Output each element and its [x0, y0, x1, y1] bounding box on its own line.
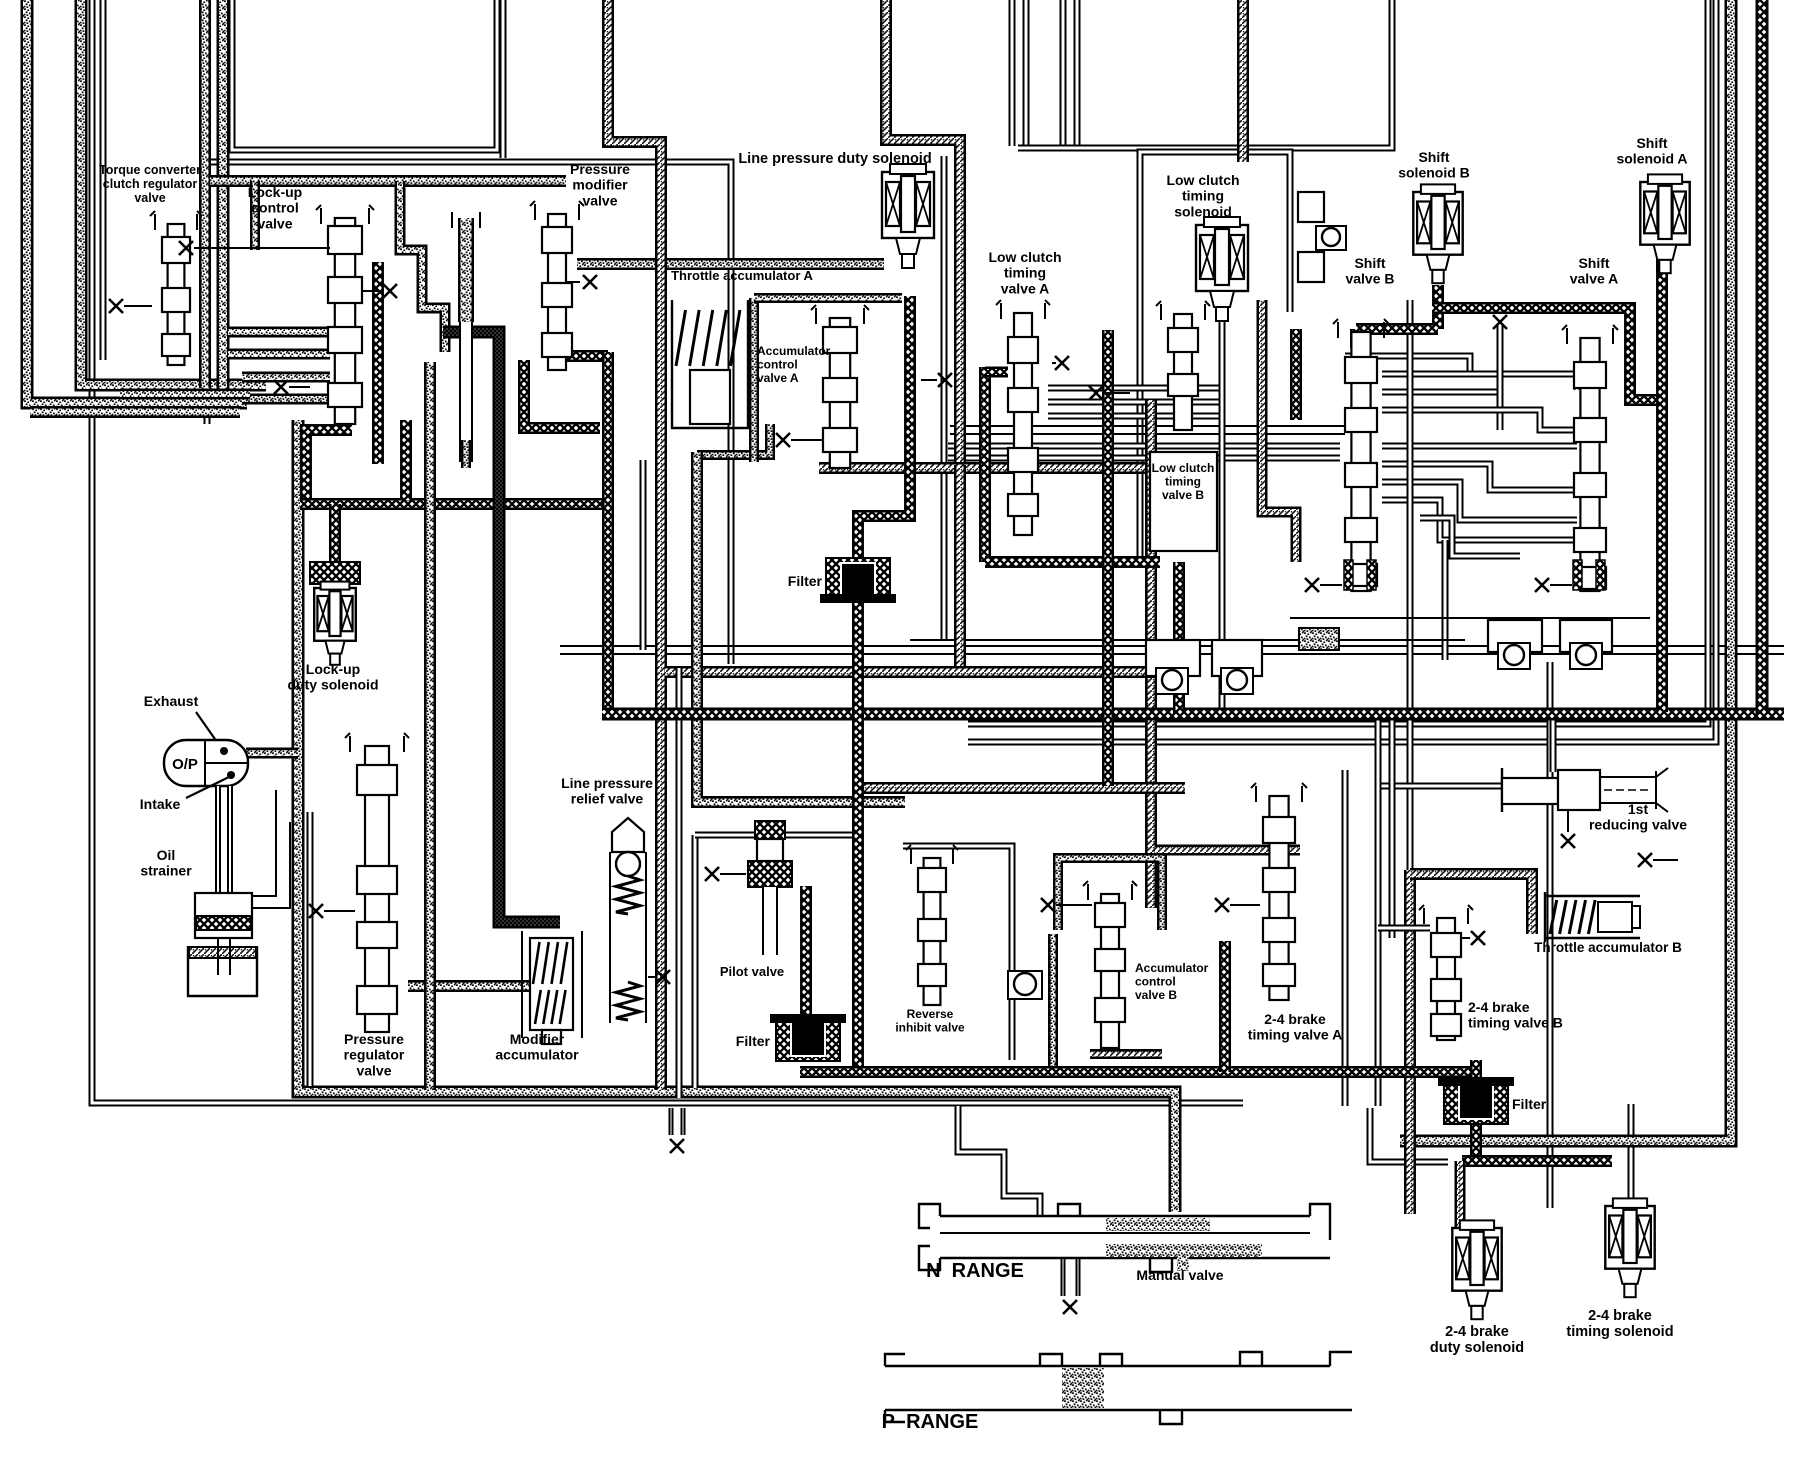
x manual valve drain [1063, 1300, 1077, 1314]
wire link to 2-4 brake timing valve B [1378, 925, 1430, 932]
wire intake pointer [186, 777, 229, 798]
wire strainer link a [252, 790, 276, 896]
wire manual valve drain b [1076, 1259, 1081, 1296]
wire low-clutch link b [1048, 399, 1222, 406]
wire horizontal low-clutch a [948, 443, 1340, 450]
wire shift maze 2 [1382, 374, 1577, 390]
pipe stipple left inner loop [81, 0, 266, 385]
pipe stipple lock-up link a [228, 327, 330, 338]
x 2-4 brake timing A port [1215, 898, 1229, 912]
valve pressure regulator [345, 733, 409, 1032]
wire vertical left of low clutch group [941, 156, 948, 640]
filter right (2-4 brake) [1438, 1077, 1514, 1124]
wire 2-4A port [1230, 904, 1260, 906]
wire white box top-left [232, 0, 497, 150]
pipe crosshatch below valve B box [985, 556, 1160, 568]
wire shift maze 8 [1382, 500, 1577, 540]
pipe stipple column tip [461, 440, 471, 468]
valve 1st reducing [1502, 768, 1668, 812]
pipe crosshatch 2-4 brake timing valve A drop [1219, 941, 1231, 1072]
wire vertical top-center c [1060, 0, 1067, 146]
wire shift maze 4 [1382, 410, 1577, 430]
pipe stipple pump outlet [246, 748, 298, 759]
wire stub below X [1497, 325, 1504, 405]
solenoid shift B [1413, 184, 1462, 283]
svg-text:Filter: Filter [788, 573, 823, 589]
wire shift maze 7 [1382, 482, 1577, 520]
solenoid shift A [1640, 174, 1689, 273]
wire long horizontal lower [560, 653, 1784, 655]
pipe crosshatch modifier valve stub [566, 350, 608, 362]
x 1st reducing port [1561, 834, 1575, 848]
pump O/P [164, 740, 248, 786]
stipple inside manual valve a [1106, 1218, 1210, 1231]
pipe stipple staircase to modifier [400, 181, 445, 352]
wire bracket a [451, 212, 453, 228]
spring throttle accumulator B [1550, 900, 1595, 934]
pipe stipple left bundle low [30, 406, 240, 418]
x low clutch timing A port a [1055, 356, 1069, 370]
wire pilot port [720, 873, 746, 875]
stipple block near shift maze [1299, 628, 1339, 650]
spring relief upper [616, 876, 640, 914]
wire left drain stub b [681, 1108, 686, 1135]
box check ball c [1488, 620, 1542, 652]
pipe stipple left bundle mid [120, 389, 250, 400]
spring modifier accumulator lower [535, 990, 566, 1024]
stipple inside manual valve b [1106, 1244, 1262, 1257]
box check ball d [1560, 620, 1612, 652]
valve low clutch timing B [1156, 301, 1210, 430]
wire vertical below maze [1442, 540, 1449, 660]
wire to 2-4 brake timing solenoid [1628, 1104, 1635, 1208]
svg-text:Filter: Filter [736, 1033, 771, 1049]
svg-text:Line pressure duty solenoid: Line pressure duty solenoid [738, 151, 931, 167]
x port right of 2-4 timing valve A [1638, 853, 1652, 867]
x lock-up right port [383, 284, 397, 298]
pipe stipple to modifier accumulator [408, 980, 560, 992]
svg-text:Pilot valve: Pilot valve [720, 964, 784, 979]
valve pressure modifier [530, 201, 584, 370]
crosshatch tabs shift valve A [1573, 560, 1582, 590]
pipe crosshatch horizontal to main drop [300, 498, 608, 510]
wire reverse inhibit valve box [903, 846, 1012, 1060]
wire stub to 1st reducing valve [1550, 714, 1557, 772]
stipple inside manual valve P [1062, 1368, 1104, 1408]
pipe crosshatch branch to shift valve B [1356, 323, 1438, 335]
wire port b [1104, 392, 1130, 394]
cap modifier accumulator [542, 1030, 561, 1044]
wire vertical left of pilot box [676, 668, 683, 1098]
check ball near solenoid [1316, 226, 1346, 250]
wire shift maze 9 [1420, 518, 1520, 556]
wire shift maze 6 [1382, 464, 1577, 490]
x lock-up left port [179, 241, 193, 255]
wire TCC port [124, 305, 152, 307]
pipe stipple ACV-A to drop [697, 424, 770, 455]
spring relief lower [616, 982, 640, 1020]
box check ball b [1212, 640, 1262, 676]
wire low-clutch thin d [950, 425, 1345, 427]
solenoid lock-up duty [314, 582, 356, 665]
wire horizontal low-clutch b [948, 455, 1340, 462]
pipe stipple wall around accumulator control valve B [1058, 858, 1162, 930]
wire pump to strainer a [215, 786, 221, 895]
wire acc A port [791, 439, 822, 441]
wire pump to strainer b [227, 786, 233, 895]
wire x stub [1653, 859, 1678, 861]
box low clutch timing valve B [1150, 452, 1217, 551]
pipe crosshatch drop below valve B run [1173, 562, 1185, 714]
pipe stipple lock-up link d [242, 394, 330, 405]
wire vertical below crosshatch junction [640, 460, 647, 650]
pipe stipple accumulator control A wall left [749, 298, 759, 462]
box check ball a [1146, 640, 1200, 676]
spring throttle accumulator A coil [676, 310, 740, 366]
pipe crosshatch into right filter [1470, 1060, 1482, 1083]
pipe stipple to lock-up top [250, 181, 260, 250]
wire lock-up port [362, 290, 382, 292]
wire pilot box top [695, 832, 862, 839]
pipe stipple below valve B left [1048, 934, 1058, 1068]
pilot valve upper [757, 839, 783, 861]
valve line pressure relief [610, 818, 646, 1023]
wire strainer link b [252, 822, 290, 908]
pipe hatch below accumulator control valve B [1090, 1049, 1162, 1059]
filter upper (throttle circuit) [820, 558, 896, 603]
wire box around low clutch timing solenoid [1140, 152, 1290, 560]
pipe hatch horizontal mid lower [862, 782, 1185, 794]
pipe crosshatch main vertical drop [602, 352, 614, 712]
valve accumulator control B [1083, 881, 1137, 1048]
x shift valve B port [1305, 578, 1319, 592]
pipe hatch to 2-4 brake timing valve A [1155, 845, 1300, 856]
pipe dotted accumulator control A output [819, 462, 1147, 474]
block right of solenoid b [1298, 252, 1324, 282]
x accumulator control B port [1041, 898, 1055, 912]
valve small tube middle [459, 322, 473, 462]
wire low-clutch thin e [950, 433, 1345, 435]
pipe crosshatch below right filter [1470, 1122, 1482, 1160]
pipe stipple left outer loop [27, 0, 247, 403]
pipe crosshatch to lock-up duty solenoid [329, 504, 341, 566]
wire manual valve left leader [958, 1106, 1040, 1216]
svg-text:Throttle accumulator A: Throttle accumulator A [671, 268, 813, 283]
wire shift A port [1550, 584, 1572, 586]
wire shift maze 3 [1382, 392, 1500, 430]
check ball d [1570, 643, 1602, 669]
pipe dark modifier accumulator feed [443, 332, 560, 922]
valve 2-4 brake timing B [1419, 905, 1473, 1040]
strainer upper box [195, 893, 252, 938]
wire vertical to manual valve [1547, 662, 1554, 1208]
wire pressure regulator box left [307, 812, 314, 1086]
wire strainer inner b [229, 938, 231, 975]
pipe crosshatch run to shift valve A side [1432, 308, 1662, 400]
pipe dotted down to lower run [954, 465, 966, 670]
wire inner boundary left [100, 0, 107, 360]
wire vertical top-center a [1009, 0, 1016, 146]
pipe hatch to 2-4 duty solenoid top [1455, 1161, 1466, 1228]
wire vertical top-center b [1023, 0, 1030, 146]
wire low-clutch link a [1048, 385, 1222, 392]
wire 1st reducing stem [1567, 810, 1569, 832]
pipe crosshatch accumulator A down [1102, 330, 1114, 786]
x left drain [670, 1139, 684, 1153]
wire long vertical through shift area [1407, 300, 1414, 1160]
spring modifier accumulator upper [533, 942, 567, 984]
pipe crosshatch into shift valve B [1350, 329, 1362, 348]
solenoid 2-4 brake duty [1452, 1220, 1501, 1319]
x exhaust port TCC regulator [109, 299, 123, 313]
wire outer boundary of pressure-regulator assembly [92, 0, 1243, 1103]
valve reverse inhibit [906, 845, 958, 1005]
x accumulator control A port [776, 433, 790, 447]
wire pr port [324, 910, 355, 912]
wire vertical left of throttle acc B 3 [1342, 770, 1349, 1106]
wire horizontal top-center run [1018, 0, 1392, 148]
pipe crosshatch lower right horizontal [1462, 1155, 1612, 1167]
pipe dotted line pressure duty feed [886, 0, 960, 465]
wire shift maze 1 [1345, 356, 1470, 372]
wire horizontal above check balls right [1290, 617, 1650, 619]
wire strainer inner a [217, 938, 219, 975]
x left bundle port [274, 380, 288, 394]
x shift valve A port [1535, 578, 1549, 592]
wire acc A right port [921, 379, 937, 381]
svg-text:P RANGE: P RANGE [882, 1411, 979, 1433]
pipe stipple upper horizontal to pressure modifier [210, 175, 566, 187]
wire bracket b [479, 212, 481, 228]
pipe hatch down to 2-4 duty solenoid [1404, 870, 1416, 1214]
pipe dotted low clutch solenoid feed lower [1262, 300, 1296, 562]
svg-text:N RANGE: N RANGE [926, 1260, 1024, 1282]
svg-text:Throttle accumulator B: Throttle accumulator B [1534, 940, 1682, 955]
wire vertical top-center-left [500, 0, 507, 158]
pipe crosshatch filter down [852, 600, 864, 1072]
svg-text:Manual valve: Manual valve [1136, 1267, 1223, 1283]
wire acc B port [1056, 904, 1092, 906]
pipe stipple lock-up link c [242, 372, 330, 383]
wire shift maze 5 [1382, 443, 1577, 450]
wire pilot box left side [692, 835, 699, 1088]
pipe crosshatch lock-up right drop [372, 262, 384, 464]
wire right vertical return b [968, 0, 1716, 742]
pilot valve crosshatch cross [748, 861, 792, 887]
stipple manual valve stub [1177, 1257, 1189, 1271]
pipe crosshatch pilot top [755, 821, 785, 839]
pipe crosshatch pilot to filter [800, 886, 812, 1016]
svg-text:Intake: Intake [140, 796, 181, 812]
x accumulator control A right port [938, 373, 952, 387]
wire long horizontal upper [560, 645, 1784, 647]
wire manual valve stem [940, 1232, 1310, 1234]
wire left drain stub a [669, 1108, 674, 1135]
pipe dotted low clutch solenoid feed upper [1237, 0, 1249, 162]
pipe crosshatch drop left of shift valve B [1290, 329, 1302, 420]
valve shift A [1562, 325, 1618, 591]
check ball b [1221, 668, 1253, 694]
wire vertical top-center d [1074, 0, 1081, 146]
svg-text:Line pressurerelief valve: Line pressurerelief valve [561, 775, 653, 807]
pilot valve tube [762, 887, 778, 955]
svg-text:O/P: O/P [172, 756, 198, 773]
pipe stipple right tall line [1400, 0, 1731, 1141]
pipe hatch to throttle accumulator B [1410, 874, 1532, 934]
wire shift B port [1320, 584, 1342, 586]
x pilot valve port [705, 867, 719, 881]
pipe dotted down right [1145, 400, 1157, 908]
pipe dotted long lower horizontal [665, 666, 1185, 678]
solenoid 2-4 brake timing [1605, 1198, 1654, 1297]
x maze top port [1493, 315, 1507, 329]
wire horizontal above check balls left [910, 639, 1465, 641]
solenoid low clutch timing [1196, 217, 1248, 321]
x pressure modifier port [583, 275, 597, 289]
pipe crosshatch lock-up valve drain elbow [306, 430, 352, 502]
accumulator throttle A [672, 300, 748, 428]
solenoid line pressure duty [882, 164, 934, 268]
pipe stipple lock-up feed a [199, 0, 211, 388]
pipe crosshatch low clutch valve A wall [979, 367, 991, 562]
x 2-4B port [1471, 931, 1485, 945]
pipe stipple long drop right of lock-up [424, 362, 436, 1090]
pipe crosshatch lock-up duty inlet [310, 562, 360, 584]
svg-text:Exhaust: Exhaust [144, 693, 199, 709]
pipe crosshatch main bottom run [602, 708, 1784, 721]
pipe crosshatch low clutch wall top stub [985, 367, 1008, 378]
pipe stipple main loop to manual valve [298, 420, 1175, 1212]
pipe stipple lock-up link b [228, 349, 330, 360]
wire low-clutch link c [1048, 413, 1222, 420]
valve 2-4 brake timing A [1251, 783, 1307, 1000]
strainer lower box [188, 946, 257, 996]
pipe stipple accumulator control A wall top [754, 293, 902, 303]
wire 2-4B port [1462, 937, 1470, 939]
wire vertical left of throttle acc B [1375, 716, 1382, 1106]
wire link to 1st reducing valve [1378, 783, 1502, 790]
wire relief port [648, 976, 656, 978]
check ball a [1156, 668, 1188, 694]
check ball reverse inhibit [1008, 971, 1042, 999]
wire exhaust pointer [196, 712, 224, 752]
wire valve B right side [1219, 312, 1226, 712]
wire elbow to duty solenoid area [1370, 1108, 1448, 1162]
pipe crosshatch duty solenoid to filter [858, 296, 910, 558]
svg-text:Filter: Filter [1512, 1096, 1547, 1112]
crosshatch tabs shift valve B [1344, 560, 1353, 590]
pipe crosshatch modifier lower U [524, 360, 600, 428]
wire lock-up left port line [194, 247, 330, 249]
valve manual P range [885, 1352, 1352, 1424]
wire manual valve drain a [1061, 1259, 1066, 1296]
pipe dotted from top to bottom line [608, 0, 661, 1090]
valve torque converter clutch regulator [150, 211, 202, 365]
wire port [1052, 362, 1056, 364]
strainer hatch band [189, 947, 256, 958]
wire vertical left of throttle acc B 2 [1389, 716, 1396, 938]
pipe crosshatch below shift solenoid B [1432, 285, 1444, 329]
accumulator modifier [522, 931, 582, 1038]
x pressure regulator port [309, 904, 323, 918]
pipe crosshatch below shift solenoid A [1656, 250, 1668, 712]
wire right vertical return a [968, 0, 1708, 724]
pipe stipple converter feed column [458, 218, 474, 322]
check ball c [1498, 643, 1530, 669]
x low clutch timing A port b [1089, 386, 1103, 400]
wire box around lock-up / pressure-modifier valve group [207, 162, 731, 664]
x relief valve port [656, 970, 670, 984]
pipe crosshatch drop to drain run [400, 420, 412, 500]
filter pilot circuit [770, 1014, 846, 1061]
pipe crosshatch right tall line [1756, 0, 1769, 714]
block right of solenoid a [1298, 192, 1324, 222]
wire x bundle stub [289, 386, 310, 388]
accumulator throttle B [1545, 892, 1640, 942]
wire modifier port [566, 281, 580, 283]
valve low clutch timing A [996, 300, 1050, 535]
valve manual N range [919, 1204, 1330, 1272]
pipe stipple lock-up feed b [217, 0, 230, 390]
pipe crosshatch lower horizontal run [800, 1066, 1481, 1078]
valve shift B [1333, 319, 1389, 591]
valve accumulator control A [811, 305, 869, 468]
strainer crosshatch band [196, 916, 251, 930]
piston throttle accumulator A [690, 370, 730, 424]
pipe stipple to reverse inhibit valve [697, 452, 905, 802]
pipe stipple throttle accumulator A feed [577, 258, 884, 270]
valve lock-up control [316, 205, 374, 424]
